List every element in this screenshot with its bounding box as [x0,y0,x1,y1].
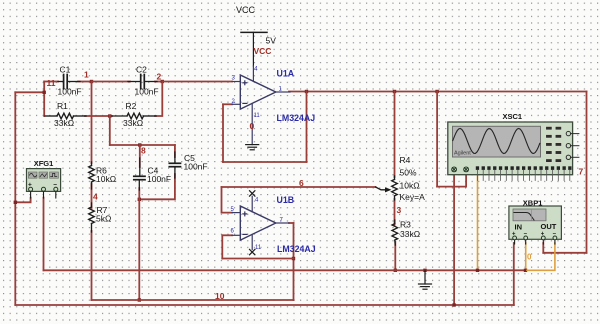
wire net 10 U1B output vertical [293,223,295,300]
wire net 8 R1 to R2 [85,115,112,117]
wire net 7 XBP1 OUT+ jog [543,252,586,254]
wire net 0 XFG1 common drop [43,198,45,271]
junction net 10 C4 bottom [138,198,141,201]
function generator XFG1 [27,169,61,198]
wire net 7 pot top vertical [394,92,396,178]
svg-text:11: 11 [255,245,262,251]
wire net 1 segment C1 to junction [78,81,92,83]
junction node 1 [90,80,93,83]
svg-text:0: 0 [527,253,532,262]
wire net 11 XFG1 plus lead [15,198,30,203]
capacitor C4 [134,158,145,190]
svg-text:LM324AJ: LM324AJ [277,113,316,123]
wire net 0 XBP1 OUT- orange [527,243,555,270]
svg-text:3: 3 [397,205,402,215]
junction net 10 line at C4 [138,298,141,301]
op-amp U1A [232,66,290,145]
svg-text:33kΩ: 33kΩ [400,229,420,239]
wire U1A feedback horizontal [223,161,307,163]
svg-text:100nF: 100nF [184,162,208,172]
svg-text:XBP1: XBP1 [523,199,543,208]
svg-text:11: 11 [254,113,261,119]
wire net 7 OUT+ drop [542,243,544,253]
svg-text:7: 7 [579,167,584,177]
wire U1B feedback vertical to minus [221,235,223,258]
wire net 10 C4 bottom vertical [138,188,140,300]
wire U1B feedback horizontal [222,258,293,260]
capacitor C1 [58,75,80,89]
wire net 11 left vertical bus [14,92,16,305]
svg-text:11: 11 [47,78,56,88]
wire net 10 R7 bottom vertical [91,231,93,300]
op-amp U1B [232,196,289,249]
wire net 10 bottom horizontal [92,299,294,301]
wire net 11 XBP1 IN+ drop [513,243,515,305]
resistor R2 [112,113,156,119]
capacitor C2 [128,75,157,89]
wire net 8 vertical down [109,116,111,145]
wire net 0 XBP1 IN- orange [525,243,527,270]
U1B no-connect X pin 11 [250,249,255,254]
svg-text:XFG1: XFG1 [34,159,54,168]
XSC1 terminal T2 [464,167,469,172]
svg-text:R2: R2 [126,101,137,111]
junction net11 jog [43,91,46,94]
svg-text:10kΩ: 10kΩ [96,174,116,184]
junction net 0 R3 [394,269,397,272]
wire net 1 vertical to R6 [91,82,93,164]
wire net 11 bottom horizontal [15,304,514,306]
resistor R1 [45,113,86,119]
svg-text:XSC1: XSC1 [503,112,523,121]
ground symbol net 0 [419,271,432,289]
svg-text:IN: IN [515,223,523,232]
svg-text:R4: R4 [400,155,411,165]
wire net 6 vertical to U1B plus [222,187,233,213]
svg-text:U1B: U1B [277,195,295,205]
resistor R3 [392,220,398,245]
wire net 0 R3 bottom [394,242,396,270]
wire net 8 C5 top lead [174,145,176,157]
wire net 7 right bus vertical [586,92,588,253]
svg-text:VCC: VCC [236,5,256,15]
wire net 2 vertical to R2 [155,82,162,117]
wire U1A feedback vertical to minus [222,104,224,162]
junction net 0 scope orange [476,269,479,272]
junction net11 T1 [452,303,455,306]
wire net 11 XSC1 T1 drop [453,174,455,305]
svg-text:8: 8 [141,146,146,156]
svg-text:Agilent: Agilent [454,151,471,157]
resistor R7 [89,203,95,232]
svg-text:33kΩ: 33kΩ [54,118,74,128]
wire net 11 bend at C1 left [43,82,45,117]
wire net 11 horizontal jog [15,91,44,93]
U1A plus minus markers [243,81,247,104]
junction net 8 R1R2 [108,114,111,117]
svg-text:C1: C1 [60,65,71,75]
junction net11 XFG1 [14,201,17,204]
junction net 0 ground stub [423,269,426,272]
wire U1A feedback vertical [306,92,308,163]
svg-text:2: 2 [157,71,162,81]
svg-text:100nF: 100nF [147,174,171,184]
svg-text:6: 6 [299,178,304,188]
U1B no-connect X pin 4 [250,191,255,196]
VCC power symbol [241,32,267,66]
wire net 6 horizontal from pot wiper [222,186,376,188]
wire net 2 C2 to junction [155,81,162,83]
potentiometer R4 [376,176,398,200]
wire U1A minus input lead [223,103,232,105]
wire net 1 junction to C2 [92,81,131,83]
svg-text:100nF: 100nF [58,87,82,97]
wire net 0 scope ground pin orange [477,171,479,270]
junction net 7 scope T2 [435,90,438,93]
U1B plus minus markers [243,212,247,234]
junction net 7 feedback U1A [305,90,308,93]
svg-text:C2: C2 [136,65,147,75]
svg-text:R1: R1 [57,101,68,111]
junction net 8 C4 top [138,143,141,146]
svg-text:50%: 50% [400,168,417,178]
resistor R6 [89,162,95,189]
junction net 0 IN- [524,269,527,272]
XSC1 terminal T1 [452,167,457,172]
svg-text:LM324AJ: LM324AJ [277,244,316,254]
svg-text:10: 10 [215,291,225,301]
svg-text:33kΩ: 33kΩ [123,118,143,128]
capacitor C5 [169,152,180,178]
wire net 8 horizontal [110,144,175,146]
svg-text:4: 4 [93,192,98,202]
svg-text:100nF: 100nF [135,87,159,97]
wire net 7 scope T2 jog [437,174,466,187]
svg-text:Key=A: Key=A [400,192,426,202]
svg-text:OUT: OUT [541,222,557,231]
svg-text:1: 1 [84,70,89,80]
wire net 10 C5 bottom lead [139,174,175,199]
junction U1B feedback [292,257,295,260]
wire net 2 to U1A plus input [162,81,232,83]
XSC1 bottom pin row [476,166,572,170]
svg-text:10kΩ: 10kΩ [400,181,420,191]
wire top row C1-C2 segment [44,81,58,83]
wire U1B minus input lead [222,234,232,236]
wire net 8 C4 top lead [139,145,141,167]
svg-text:R3: R3 [400,220,411,230]
wire net 4 R6 to R7 [91,184,93,208]
wire net 7 scope T2 vertical [436,92,438,187]
wire net 0 main horizontal [44,269,526,271]
wire U1B output lead [289,222,294,224]
svg-text:VCC: VCC [254,46,272,56]
svg-text:5V: 5V [266,36,277,46]
wire net 3 pot to R3 [394,199,396,225]
bode plotter XBP1 [509,206,562,244]
svg-text:5kΩ: 5kΩ [96,214,111,224]
svg-text:U1A: U1A [277,69,295,79]
junction net 7 pot top [393,90,396,93]
junction node 2 [161,80,164,83]
oscilloscope XSC1 [448,122,579,175]
ground under U1A [246,145,259,150]
svg-text:0: 0 [250,121,255,131]
wire net 7 output main horizontal [289,91,587,93]
potentiometer R4 wiper arrow [385,187,392,192]
